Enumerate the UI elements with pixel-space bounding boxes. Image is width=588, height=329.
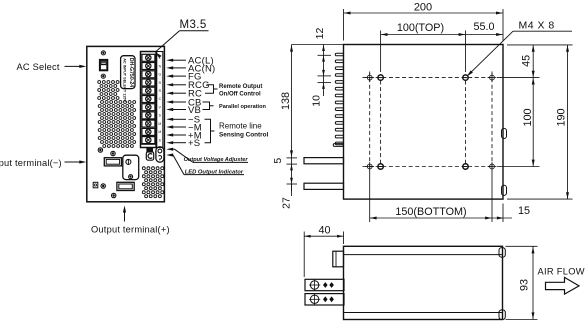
svg-text:40: 40	[318, 224, 330, 236]
side view input bus bar with screw	[305, 279, 344, 290]
arrow to terminal -M	[166, 125, 173, 128]
side view bottom seam line	[344, 312, 503, 314]
leader Output Voltage Adjuster	[166, 148, 173, 151]
svg-text:200: 200	[414, 2, 432, 14]
output bus bar prong side view	[304, 183, 344, 189]
svg-text:45: 45	[521, 55, 533, 67]
svg-text:+S: +S	[188, 138, 200, 149]
top cover screw bottom-left M4	[378, 164, 383, 169]
svg-text:S: S	[159, 114, 162, 118]
svg-text:V: V	[159, 106, 162, 110]
dimension 150(BOTTOM)	[369, 173, 371, 223]
svg-text:138: 138	[280, 92, 292, 110]
top cover screw top-left M4	[378, 75, 383, 80]
input bus bar prong side view	[304, 158, 344, 164]
side view output bus bar with screw	[305, 294, 344, 305]
svg-text:93: 93	[518, 279, 530, 291]
svg-text:AIR FLOW: AIR FLOW	[538, 266, 585, 276]
dimension 200 overall width	[343, 9, 345, 41]
input bus bar terminal (-)	[104, 158, 121, 166]
AC select switch	[99, 59, 107, 70]
terminal block body	[141, 52, 157, 148]
top cover screw bottom-right M4	[463, 164, 468, 169]
bracket CB/VB parallel	[203, 102, 214, 110]
bracket sensing -S..+S	[205, 119, 215, 142]
arrow to terminal RCG	[166, 83, 173, 86]
arrow Output terminal up to panel	[124, 210, 126, 222]
dimension 100(TOP)	[380, 31, 382, 73]
svg-text:LED Output Indicator: LED Output Indicator	[185, 169, 244, 175]
svg-text:100(TOP): 100(TOP)	[397, 22, 444, 34]
front view: power supply front panel outline	[87, 46, 165, 201]
side view right bump upper	[499, 248, 505, 258]
svg-text:Input terminal(−): Input terminal(−)	[0, 158, 62, 168]
svg-text:Sensing Control: Sensing Control	[219, 132, 269, 139]
LED indicator oval	[156, 147, 164, 162]
arrow Input terminal to bus bar	[65, 161, 83, 163]
bottom mounting hole bottom-right	[490, 164, 495, 169]
svg-text:Remote Output: Remote Output	[219, 84, 262, 90]
svg-text:AC Select: AC Select	[17, 62, 60, 72]
case right edge bump lower	[502, 185, 507, 195]
svg-text:190: 190	[555, 108, 567, 126]
svg-text:27: 27	[280, 197, 292, 209]
svg-text:G: G	[158, 73, 161, 77]
terminal block base	[141, 143, 157, 145]
side view right bump lower	[499, 310, 505, 320]
terminal letter strip	[157, 52, 163, 148]
dimension 100 (right side)	[497, 166, 540, 168]
side view top seam line	[344, 254, 503, 256]
dimension 5 (bus bar thickness)	[287, 157, 298, 159]
dimension 93	[506, 245, 538, 247]
svg-text:12: 12	[314, 28, 326, 40]
bottom mounting hole top-left	[367, 75, 372, 80]
svg-text:DH-G750-24: DH-G750-24	[128, 58, 134, 88]
svg-text:100: 100	[522, 108, 534, 126]
screw left of bus bar 1	[98, 148, 102, 152]
svg-text:M3.5: M3.5	[180, 19, 207, 31]
model label DH-G750-24 (rotated)	[121, 56, 135, 89]
svg-text:55.0: 55.0	[473, 21, 494, 33]
output bus bar terminal (+)	[117, 182, 134, 190]
dimension 138	[291, 45, 293, 158]
svg-text:Output Voltage Adjuster: Output Voltage Adjuster	[184, 157, 249, 163]
screw below AC select switch	[101, 74, 105, 78]
bottom mounting hole top-right	[490, 75, 495, 80]
side view mounting tab left	[333, 251, 344, 267]
svg-text:M4 X 8: M4 X 8	[519, 20, 555, 32]
svg-text:M: M	[158, 130, 161, 134]
svg-text:S: S	[159, 138, 162, 142]
svg-text:150(BOTTOM): 150(BOTTOM)	[395, 206, 466, 218]
svg-text:Output terminal(+): Output terminal(+)	[91, 225, 170, 235]
arrow to terminal +S	[166, 141, 173, 144]
svg-text:5: 5	[272, 158, 284, 164]
output voltage adjuster potentiometer	[147, 149, 153, 153]
output terminal cover plate	[123, 155, 139, 179]
terminal block side view teeth	[335, 53, 343, 56]
dimension 190 overall height	[507, 198, 573, 200]
fuse holder square	[93, 182, 98, 188]
terminal cells with screws	[142, 54, 155, 61]
dimension 55.0	[466, 34, 504, 36]
screw above AC select switch	[101, 51, 105, 55]
screw right of fuse square	[101, 184, 105, 188]
side view: case outline	[344, 246, 503, 319]
svg-text:Remote line: Remote line	[219, 121, 262, 130]
svg-text:R: R	[159, 81, 162, 85]
dimension 40	[303, 232, 305, 278]
arrow to terminal RC	[166, 92, 173, 95]
screw bottom center	[112, 193, 116, 197]
svg-text:M: M	[158, 122, 161, 126]
arrow to terminal CB	[166, 100, 173, 103]
arrow to terminal FG	[166, 75, 173, 78]
air flow block arrow	[546, 277, 580, 294]
top view: case outline	[344, 45, 504, 200]
leader LED Output Indicator	[166, 153, 173, 156]
arrow to terminal AC(L)	[166, 59, 173, 62]
arrow to terminal +M	[166, 133, 173, 136]
svg-text:R: R	[159, 89, 162, 93]
dashed line between top screws	[380, 81, 382, 164]
dimension 12 (terminal block offset)	[292, 44, 344, 46]
top vent hole field	[98, 81, 101, 84]
arrow AC Select to switch	[65, 65, 83, 67]
arrow to terminal VB	[166, 108, 173, 111]
svg-text:On/Off Control: On/Off Control	[219, 92, 261, 98]
dimension 15	[502, 204, 504, 223]
svg-text:15: 15	[518, 205, 530, 217]
arrow to terminal -S	[166, 118, 173, 121]
svg-text:Parallel operation: Parallel operation	[219, 104, 267, 110]
case right edge bump upper	[502, 128, 507, 138]
terminal block lower tab	[333, 144, 343, 147]
svg-text:C: C	[159, 97, 162, 101]
svg-text:N: N	[159, 64, 162, 68]
mounting hole pattern dashed outline	[363, 77, 493, 79]
svg-text:AC INPUT SELECT 115V: AC INPUT SELECT 115V	[123, 58, 127, 102]
bracket RCG/RC remote on-off	[205, 85, 218, 93]
dimension 45	[507, 44, 573, 46]
bottom-right vent hole field	[142, 167, 145, 170]
dimension 10 (terminal pitch)	[318, 75, 332, 77]
svg-text:10: 10	[310, 95, 322, 107]
screw above bus bar 1	[111, 151, 115, 155]
bottom mounting hole bottom-left	[367, 164, 372, 169]
top cover screw top-right M4	[463, 75, 468, 80]
dimension 27	[287, 183, 298, 185]
arrow to terminal AC(N)	[166, 66, 173, 69]
